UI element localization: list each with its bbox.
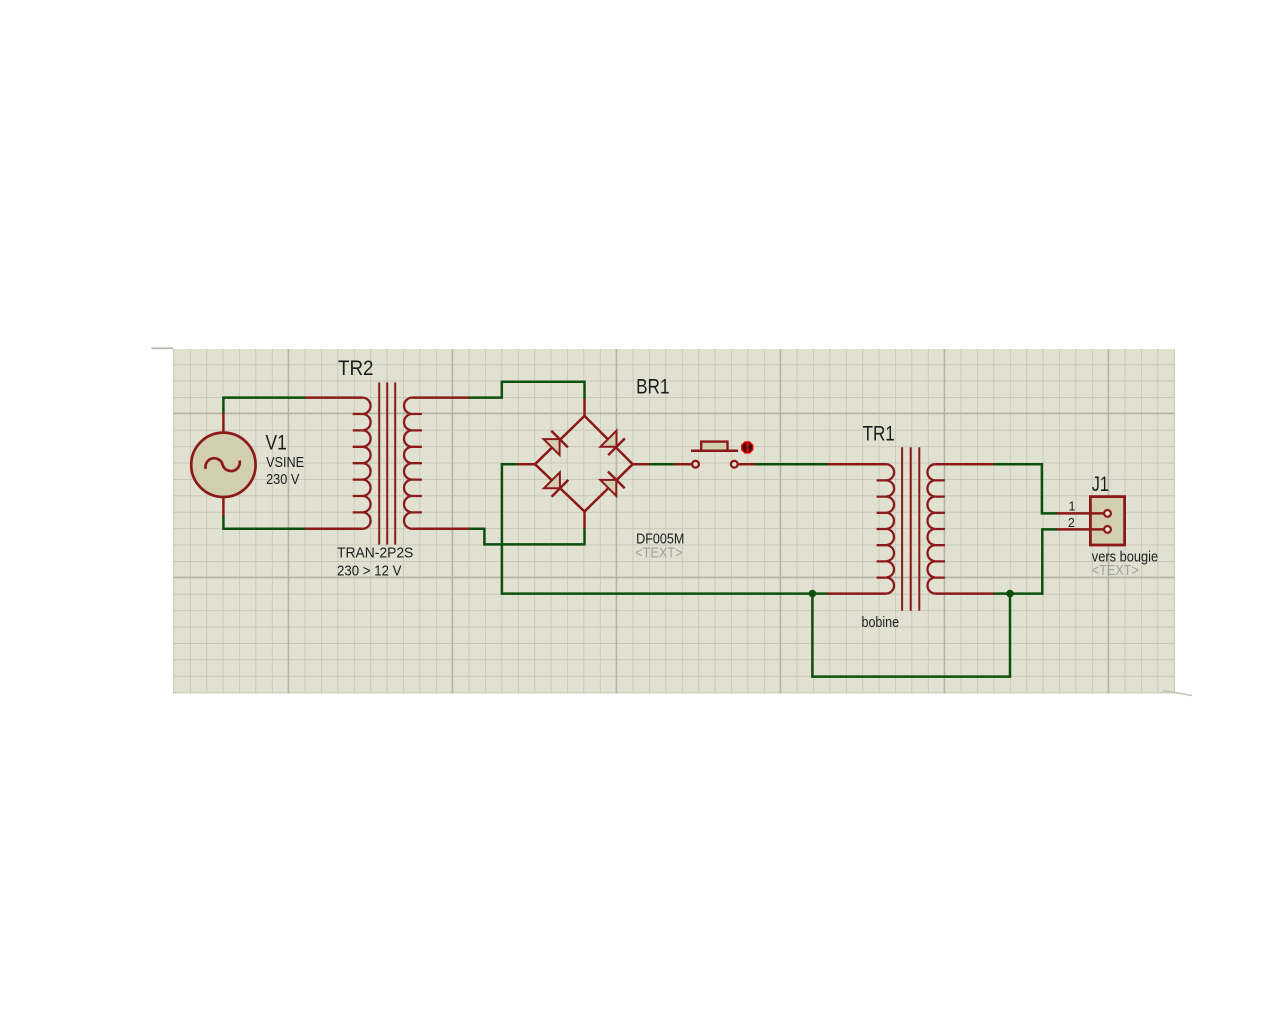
svg-text:2: 2 bbox=[1068, 516, 1075, 530]
svg-text:V1: V1 bbox=[266, 431, 287, 455]
TR1 pin 1 lead bbox=[828, 463, 887, 466]
switch actuator bar bbox=[691, 449, 738, 452]
connector J1 bbox=[1057, 497, 1125, 545]
TR1 pin 4 lead bbox=[935, 592, 994, 595]
sheet background bbox=[173, 349, 1175, 694]
source V1 bbox=[191, 433, 255, 497]
svg-text:J1: J1 bbox=[1092, 473, 1109, 496]
wire switch to TR1 primary top bbox=[755, 463, 829, 466]
sheet edge mark bottom-right bbox=[1163, 691, 1192, 696]
push button switch bbox=[674, 441, 755, 467]
sheet edge mark top-left bbox=[152, 347, 174, 349]
svg-text:TR1: TR1 bbox=[863, 423, 895, 446]
switch contact left bbox=[692, 461, 699, 468]
svg-text:1: 1 bbox=[1069, 500, 1076, 514]
bridge rectifier BR1 bbox=[518, 399, 650, 529]
BR1 pin left bbox=[518, 463, 535, 466]
BR1 pin top bbox=[583, 399, 586, 416]
svg-text:230 V: 230 V bbox=[266, 471, 299, 488]
wire V1 bottom to TR2 primary bottom bbox=[223, 516, 306, 529]
wire junction to TR1 primary bottom bbox=[812, 592, 829, 595]
wire TR1 secondary bottom to J1 pin 2 bbox=[993, 529, 1058, 593]
wire TR2 secondary bottom to BR1 bottom bbox=[469, 528, 585, 544]
BR1 pin right bbox=[633, 463, 650, 466]
major grid lines bbox=[173, 349, 1175, 694]
svg-text:TRAN-2P2S: TRAN-2P2S bbox=[337, 545, 413, 562]
TR2 pin 3 lead bbox=[412, 396, 470, 399]
wire TR1 secondary top to J1 pin 1 bbox=[993, 464, 1058, 513]
TR2 pin 1 lead bbox=[305, 396, 362, 399]
J1 pin 2 line bbox=[1057, 528, 1104, 531]
pin V1 top bbox=[222, 412, 225, 432]
TR1 pin 2 lead bbox=[828, 592, 887, 595]
wire BR1 left to TR1 bottom junction bbox=[502, 464, 813, 593]
BR1 diode D2 top-right bbox=[601, 431, 625, 455]
pin V1 bottom bbox=[222, 497, 225, 517]
BR1 diode D3 bottom-left bbox=[544, 472, 568, 496]
TR2 core bbox=[379, 382, 395, 544]
TR1 secondary coil bbox=[927, 464, 935, 593]
BR1 diode D4 bottom-right bbox=[600, 472, 624, 496]
TR2 pin 2 lead bbox=[305, 528, 362, 531]
svg-text:<TEXT>: <TEXT> bbox=[635, 546, 682, 562]
BR1 diode D1 top-left bbox=[544, 431, 568, 455]
svg-text:VSINE: VSINE bbox=[266, 454, 304, 471]
transformer TR2 bbox=[305, 382, 469, 544]
junction dot right bbox=[1006, 590, 1014, 598]
J1 pin 1 circle bbox=[1104, 510, 1111, 517]
wire V1 top to TR2 primary top bbox=[223, 398, 306, 413]
wire bottom loop bbox=[812, 594, 1010, 677]
switch pin right bbox=[739, 463, 756, 466]
svg-text:<TEXT>: <TEXT> bbox=[1092, 562, 1139, 579]
switch pin left bbox=[674, 463, 691, 466]
svg-text:TR2: TR2 bbox=[338, 357, 374, 380]
switch toggle red dot bbox=[741, 441, 753, 453]
BR1 diamond bbox=[535, 416, 633, 512]
J1 pin 2 circle bbox=[1104, 526, 1111, 533]
TR2 secondary coil bbox=[404, 398, 412, 529]
sine symbol of V1 bbox=[206, 458, 240, 471]
transformer TR1 bbox=[828, 447, 994, 610]
junction dot left bbox=[809, 590, 817, 598]
TR1 pin 3 lead bbox=[935, 463, 994, 466]
wire TR2 secondary top to BR1 top bbox=[469, 382, 585, 400]
TR2 primary coil bbox=[362, 398, 370, 529]
switch contact right bbox=[731, 461, 738, 468]
switch cap bbox=[701, 442, 727, 451]
BR1 pin bottom bbox=[583, 512, 586, 529]
svg-text:bobine: bobine bbox=[862, 614, 900, 631]
J1 pin 1 line bbox=[1057, 512, 1104, 515]
TR1 core bbox=[902, 447, 919, 610]
svg-text:230 > 12 V: 230 > 12 V bbox=[337, 562, 402, 579]
TR1 primary coil bbox=[886, 464, 894, 593]
TR2 pin 4 lead bbox=[412, 528, 470, 531]
wire BR1 right to switch bbox=[649, 463, 676, 466]
svg-text:BR1: BR1 bbox=[636, 375, 669, 398]
